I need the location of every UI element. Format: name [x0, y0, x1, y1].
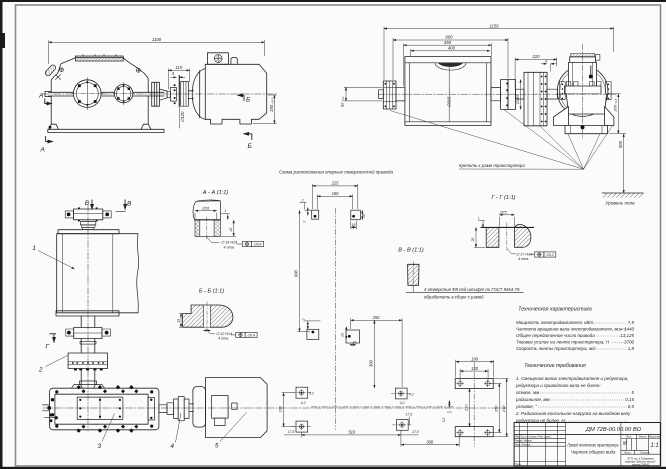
- svg-text:190: 190: [471, 357, 479, 362]
- svg-text:Листов: Листов: [639, 451, 650, 455]
- dimensions of top-right view: [344, 27, 626, 194]
- svg-text:Частота вращения вала электрод: Частота вращения вала электродвигателя, …: [516, 327, 627, 332]
- small bearing cover: [114, 84, 132, 102]
- svg-text:4: 4: [545, 60, 547, 64]
- brake coupling block: [524, 72, 547, 126]
- section B marks above bearing: [92, 200, 126, 212]
- svg-text:Тяговое усилие на ленте трансп: Тяговое усилие на ленте транспортера, Н: [516, 340, 610, 345]
- svg-text:∅25: ∅25: [499, 211, 507, 215]
- svg-text:∅0,4: ∅0,4: [254, 243, 262, 247]
- input shaft of gearbox: [547, 89, 558, 99]
- drum item 1: [58, 230, 119, 234]
- svg-text:3700: 3700: [624, 340, 635, 345]
- svg-text:160: 160: [278, 405, 282, 412]
- svg-text:∅195: ∅195: [515, 94, 520, 105]
- motor top view item 5: [193, 387, 206, 428]
- dim 115: [168, 69, 189, 71]
- svg-text:∅0,4: ∅0,4: [247, 334, 255, 338]
- svg-text:18: 18: [341, 333, 345, 337]
- svg-text:4 отв.: 4 отв.: [224, 245, 235, 249]
- dim 1100: [49, 41, 265, 43]
- svg-text:150₋₀,₅: 150₋₀,₅: [269, 98, 274, 112]
- svg-text:210: 210: [465, 404, 469, 412]
- dia 120 leader: [178, 106, 180, 128]
- svg-text:Б: Б: [248, 143, 252, 150]
- svg-text:7,5: 7,5: [628, 320, 635, 325]
- drain plug dot: [49, 126, 52, 129]
- dim 220: [515, 59, 557, 61]
- gearbox vertical centerline: [582, 44, 584, 139]
- svg-text:группа СМ9-62: группа СМ9-62: [632, 463, 650, 466]
- svg-text:180: 180: [332, 191, 340, 196]
- svg-text:4 отв.: 4 отв.: [518, 257, 529, 261]
- shaft to brake drum: [516, 89, 525, 99]
- svg-text:28: 28: [471, 238, 475, 243]
- dim 600: [393, 39, 508, 41]
- svg-text:400: 400: [448, 46, 456, 51]
- lower bearing unit: [74, 328, 102, 339]
- svg-text:200₋₀,₅: 200₋₀,₅: [613, 98, 618, 112]
- vertical axis of drum shaft: [87, 205, 89, 431]
- svg-text:Б: Б: [246, 97, 250, 104]
- svg-text:5,2: 5,2: [442, 417, 446, 422]
- section A arrows: [45, 99, 53, 142]
- svg-text:Технические требования: Технические требования: [524, 363, 586, 369]
- dim 7 top: [307, 208, 309, 216]
- dim 308: [401, 444, 459, 446]
- schema vertical centerline: [335, 208, 337, 430]
- section G mark at lower bearing: [50, 334, 57, 343]
- horizontal axis of gearbox-motor row: [43, 407, 507, 409]
- dim 250: [351, 319, 402, 321]
- svg-text:Б - Б (1:1): Б - Б (1:1): [199, 289, 224, 295]
- svg-text:140: 140: [471, 366, 479, 371]
- drum centerline + dia315: [448, 64, 450, 122]
- svg-text:22: 22: [229, 228, 233, 233]
- dia 195: [520, 80, 522, 110]
- svg-text:Схема расположения опорных пов: Схема расположения опорных поверхностей …: [279, 169, 394, 175]
- left grid rows: [514, 426, 565, 428]
- svg-text:250: 250: [494, 405, 498, 413]
- dim 225: [312, 185, 358, 187]
- technical requirements text: [515, 363, 634, 423]
- sheet edge bands: [0, 0, 666, 2]
- output boss right: [152, 82, 160, 106]
- left shaft stub + bolts: [43, 405, 50, 411]
- axis centerline: [378, 93, 616, 95]
- side flange plates: [560, 82, 566, 100]
- left grid columns: [519, 423, 521, 467]
- item number leaders: [38, 251, 247, 443]
- dim 250: [498, 383, 500, 432]
- svg-text:5: 5: [215, 443, 219, 450]
- svg-text:радиальное, мм: радиальное, мм: [515, 397, 550, 402]
- drum support plate with 4 holes: [311, 362, 493, 447]
- dim 17,5 mid: [401, 434, 419, 436]
- dim 240: [506, 379, 508, 437]
- svg-text:18: 18: [176, 319, 180, 323]
- svg-text:ДМ 72В-00.00.00 ВО: ДМ 72В-00.00.00 ВО: [585, 427, 642, 433]
- svg-text:А: А: [38, 93, 43, 100]
- svg-text:Чертеж общего вида: Чертеж общего вида: [571, 450, 616, 455]
- svg-text:1100: 1100: [152, 37, 162, 42]
- svg-text:В - В (1:1): В - В (1:1): [398, 248, 424, 254]
- svg-text:Изм. Лист № докум. По: Изм. Лист № докум. Подп. Дата: [515, 436, 551, 439]
- dim 140: [460, 370, 488, 372]
- svg-text:редуктора и приводного вала не: редуктора и приводного вала не более:: [515, 383, 601, 388]
- svg-text:Мощность электродвигателя, кВт: Мощность электродвигателя, кВт: [516, 320, 593, 325]
- svg-text:17,5: 17,5: [406, 413, 413, 417]
- svg-text:Привод ленточного транспортера: Привод ленточного транспортера: [568, 443, 619, 448]
- svg-text:250: 250: [372, 315, 381, 320]
- svg-text:17,5: 17,5: [412, 430, 419, 434]
- svg-text:4 отверстия Ф8 под штифт по: 4 отверстия Ф8 под штифт по ГОСТ 9464-79: [424, 287, 520, 292]
- dim 400: [411, 50, 490, 52]
- svg-text:4,2: 4,2: [400, 401, 405, 405]
- dim 510: [302, 434, 401, 436]
- svg-text:300: 300: [368, 359, 373, 367]
- svg-text:510: 510: [348, 430, 356, 435]
- svg-text:∅ 12 H14: ∅ 12 H14: [216, 332, 232, 336]
- gearbox tower: [569, 62, 597, 93]
- svg-text:4,2: 4,2: [409, 392, 414, 396]
- dimensions of top-left view: [49, 40, 277, 128]
- section Б arrows at motor: [238, 95, 252, 140]
- dim 450: [404, 44, 492, 46]
- gearbox inlet bosses: [72, 385, 105, 389]
- svg-text:2: 2: [38, 367, 43, 374]
- dim 2: [300, 202, 307, 204]
- terminal box: [207, 53, 228, 65]
- coupling flanges: [501, 80, 508, 110]
- svg-text:600: 600: [445, 35, 453, 40]
- svg-text:Лист: Лист: [623, 451, 632, 455]
- svg-text:0,5: 0,5: [628, 404, 635, 409]
- svg-text:Масштаб: Масштаб: [648, 435, 661, 439]
- svg-text:Разраб. Иванов: Разраб. Иванов: [515, 441, 533, 443]
- svg-text:Крепить к раме транспортера: Крепить к раме транспортера: [459, 163, 525, 168]
- oil sight plug (rotated slot): [44, 64, 56, 77]
- svg-text:∅315: ∅315: [447, 96, 452, 108]
- dim 4: [541, 63, 547, 65]
- flange band with bosses: [565, 86, 602, 94]
- tolerance frame Г-Г: [530, 252, 556, 257]
- dim 200 / 500 right: [617, 94, 619, 134]
- left ear screw: [59, 68, 63, 72]
- svg-text:4,2: 4,2: [301, 401, 306, 405]
- dia 82 left: [345, 87, 347, 101]
- svg-text:В: В: [85, 200, 90, 207]
- dim 3: [171, 76, 177, 78]
- axis centerline: [42, 93, 278, 95]
- dim 1150: [384, 28, 614, 30]
- gearbox front: big circle: [557, 66, 608, 117]
- svg-text:Уровень пола: Уровень пола: [605, 201, 635, 206]
- svg-text:1150: 1150: [489, 23, 499, 28]
- svg-text:0,15: 0,15: [625, 397, 634, 402]
- output shaft + coupling item 4: [159, 405, 167, 413]
- split flange lines: [49, 91, 165, 93]
- dim 300 vertical: [373, 320, 375, 388]
- right part: [621, 437, 661, 439]
- eye bolt stub: [231, 57, 237, 64]
- svg-text:17,5: 17,5: [288, 430, 295, 434]
- svg-text:4 отв.: 4 отв.: [218, 336, 229, 340]
- svg-text:редуктора не более, Н: редуктора не более, Н: [515, 418, 565, 423]
- dim 600 vertical: [299, 210, 301, 331]
- gearbox top view item 3: [50, 388, 159, 430]
- gearbox top cap: [571, 54, 595, 57]
- floor level: [602, 193, 644, 198]
- svg-text:3: 3: [98, 443, 102, 450]
- dim 150 right of motor: [273, 95, 275, 124]
- tolerance frame Б-Б: [231, 332, 257, 337]
- svg-text:Масса: Масса: [639, 435, 647, 439]
- lower housing: [566, 94, 606, 114]
- svg-text:В: В: [127, 200, 132, 207]
- svg-text:1,8: 1,8: [628, 346, 635, 351]
- shaft step to drum: [396, 87, 405, 101]
- svg-text:А: А: [40, 147, 45, 154]
- dim 160: [283, 393, 285, 427]
- right shaft: [491, 88, 501, 101]
- dim 7 lower: [307, 322, 309, 330]
- coupling item 2: [68, 353, 108, 369]
- svg-text:600: 600: [294, 269, 299, 277]
- svg-text:220: 220: [531, 54, 540, 59]
- svg-text:угловое, °: угловое, °: [515, 404, 537, 409]
- svg-text:Техническая характеристика: Техническая характеристика: [518, 307, 592, 313]
- svg-text:4,2: 4,2: [309, 392, 314, 396]
- svg-text:обработать в сборе с рамой: обработать в сборе с рамой: [424, 295, 484, 300]
- top-right pad: [351, 210, 361, 220]
- top-left pad: [312, 210, 319, 219]
- leader lines: крепить к раме: [390, 110, 613, 170]
- dim 5,2: [448, 401, 450, 407]
- shaft below drum: [81, 316, 95, 327]
- svg-text:Пров. Петров: Пров. Петров: [515, 445, 531, 447]
- dim 16 below right pad: [351, 226, 356, 228]
- svg-text:500: 500: [618, 140, 623, 148]
- svg-text:450: 450: [444, 40, 452, 45]
- svg-text:А - А (1:1): А - А (1:1): [202, 190, 229, 196]
- left pillow block bearing: [383, 81, 396, 109]
- svg-text:Н.кон.: Н.кон.: [515, 464, 522, 466]
- svg-text:16: 16: [352, 223, 356, 227]
- title block texts: [515, 427, 661, 466]
- dim 210: [469, 389, 471, 427]
- svg-text:1440: 1440: [624, 327, 635, 332]
- svg-text:Лит.: Лит.: [625, 435, 632, 439]
- drum body: [405, 57, 491, 126]
- svg-text:2: 2: [301, 198, 304, 202]
- dim 180: [317, 195, 352, 197]
- svg-text:Скорость ленты транспортера, м: Скорость ленты транспортера, м/с: [516, 346, 596, 351]
- motor: [192, 69, 205, 120]
- shaft to coupling 2: [81, 339, 95, 354]
- shaft into gearbox: [81, 370, 95, 384]
- dim 17,5 left: [284, 434, 302, 436]
- left shaft stub: [379, 90, 384, 99]
- svg-text:∅ 18 H14: ∅ 18 H14: [221, 241, 237, 245]
- svg-text:∅26: ∅26: [202, 207, 210, 211]
- inspection cover plate: [76, 56, 124, 61]
- svg-text:1:1: 1:1: [650, 443, 658, 449]
- svg-text:13,125: 13,125: [620, 333, 634, 338]
- big bearing cover: [74, 80, 102, 108]
- bolt diamonds on gearbox rim: [51, 385, 153, 433]
- drum top hatch lens: [438, 63, 464, 67]
- svg-text:Г - Г (1:1): Г - Г (1:1): [491, 195, 515, 201]
- input shaft stub left: [45, 91, 51, 96]
- bottom-left pad: [307, 329, 319, 339]
- title block (GOST form 1): [514, 423, 660, 467]
- tolerance frame A-A: [237, 241, 264, 246]
- svg-text:1. Смещения валов электродвига: 1. Смещения валов электродвигателя и ред…: [516, 376, 629, 381]
- svg-text:∅120: ∅120: [180, 111, 185, 123]
- output shaft cone + coupling: [159, 89, 167, 100]
- top bearing unit: [74, 209, 103, 220]
- lower housing: [49, 96, 151, 129]
- svg-text:4: 4: [171, 443, 175, 450]
- svg-text:240: 240: [502, 405, 506, 413]
- bottom-right pad: [346, 330, 360, 343]
- svg-text:225: 225: [331, 181, 340, 186]
- svg-text:18: 18: [362, 214, 366, 218]
- dim 18 right pad: [361, 210, 363, 220]
- right bearing cap: [148, 398, 154, 421]
- svg-text:осевое, мм: осевое, мм: [516, 390, 539, 395]
- gearbox upper housing: [51, 58, 148, 93]
- svg-text:1: 1: [225, 209, 227, 213]
- technical characteristics text: [516, 307, 634, 352]
- svg-text:16: 16: [353, 341, 357, 345]
- right ear screw: [136, 68, 140, 72]
- svg-text:2. Радиальная консольная нагру: 2. Радиальная консольная нагрузка на вых…: [515, 411, 631, 416]
- svg-text:Г: Г: [46, 344, 50, 351]
- svg-text:308: 308: [426, 440, 434, 445]
- svg-text:1: 1: [33, 245, 36, 252]
- motor mounting pads + dims: [292, 387, 413, 432]
- dim 190: [456, 361, 494, 363]
- svg-text:∅0,2: ∅0,2: [546, 253, 554, 257]
- svg-text:115: 115: [175, 65, 182, 70]
- svg-text:82₋₀,₁: 82₋₀,₁: [339, 96, 344, 107]
- svg-text:1: 1: [478, 216, 480, 220]
- base plate: [48, 129, 164, 132]
- svg-text:Общее передаточное число приво: Общее передаточное число привода: [516, 333, 595, 338]
